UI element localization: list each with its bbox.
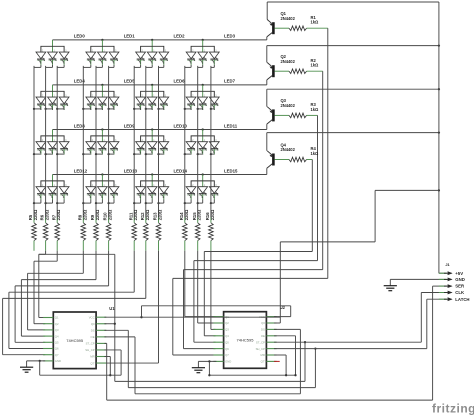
svg-text:OE: OE — [91, 335, 95, 339]
transistor Q3 2N4402 (PNP) — [267, 107, 274, 124]
LED LED3 (RGB common anode) — [186, 40, 219, 65]
LED LED13 (RGB common anode) — [86, 175, 119, 200]
svg-text:MR: MR — [90, 355, 94, 359]
wire column 7 vertical — [133, 66, 135, 218]
svg-text:1kΩ: 1kΩ — [311, 107, 320, 112]
wire U1 pin7 — [104, 356, 110, 358]
wire Q2 emitter to rail — [266, 46, 268, 63]
wire column 8 vertical — [145, 66, 147, 218]
LED LED14 (RGB common anode) — [136, 175, 169, 200]
wire +5V emitter rails — [267, 1, 439, 3]
svg-text:LED11: LED11 — [224, 123, 238, 128]
LED LED0 (RGB common anode) — [36, 40, 69, 65]
junction col11 row3 — [197, 202, 199, 204]
wire R1 to U2 vertical — [327, 28, 329, 278]
wire LED12 cathode 2 drop — [63, 200, 65, 204]
wire LED13 cathode 2 drop — [113, 200, 115, 204]
wire row 0 bus — [53, 39, 267, 41]
wire vcc mid horizontal — [280, 241, 375, 243]
svg-text:220Ω: 220Ω — [158, 209, 163, 220]
svg-text:1kΩ: 1kΩ — [311, 63, 320, 68]
svg-text:OE: OE — [261, 334, 265, 338]
wire column 9 vertical — [158, 66, 160, 218]
wire data bottom bus — [135, 393, 300, 395]
resistor R14 220 ohm — [184, 218, 186, 223]
LED LED9 (RGB common anode) — [86, 130, 119, 155]
svg-text:CLK: CLK — [455, 290, 465, 295]
junction col12 row1 — [210, 108, 212, 110]
junction col2 row1 — [44, 108, 46, 110]
svg-text:2N4402: 2N4402 — [281, 16, 296, 21]
svg-text:VCC: VCC — [89, 315, 95, 319]
svg-text:220Ω: 220Ω — [145, 209, 150, 220]
wire row 2 bus — [53, 129, 267, 131]
svg-text:Q0: Q0 — [261, 321, 265, 325]
svg-text:1kΩ: 1kΩ — [311, 20, 320, 25]
junction col8 row1 — [145, 108, 147, 110]
svg-text:Q7': Q7' — [90, 361, 95, 365]
svg-text:SER: SER — [455, 284, 465, 289]
wire LED3 cathode 2 drop — [213, 65, 215, 68]
wire U2 GND — [198, 360, 216, 362]
wire LED0 cathode 2 drop — [63, 65, 65, 68]
IC U1 74HC595 — [53, 312, 96, 369]
svg-text:LED5: LED5 — [124, 79, 136, 84]
wire U1 VCC net — [104, 316, 141, 318]
junction row2 pkg2 — [151, 128, 153, 130]
wire LED7 cathode 0 drop — [190, 109, 192, 110]
wire LED13 cathode 1 drop — [101, 200, 103, 204]
junction col3 row1 — [56, 108, 58, 110]
ground near U1 — [26, 361, 28, 367]
wire LED5 cathode 2 drop — [113, 109, 115, 110]
wire R2 to U2 vertical — [322, 71, 324, 269]
wire Q3 emitter to rail — [266, 89, 268, 107]
wire R4 to U2 vertical — [311, 160, 313, 252]
junction col4 row1 — [82, 108, 84, 110]
LED LED12 (RGB common anode) — [36, 175, 69, 200]
resistor R12 220 ohm — [145, 218, 147, 223]
junction rail — [438, 44, 440, 46]
wire LED8 cathode 0 drop — [40, 153, 42, 155]
resistor R8 220 ohm — [82, 218, 84, 223]
wire column 2 vertical — [45, 66, 47, 218]
ground near U2 — [197, 361, 199, 367]
svg-text:+5V: +5V — [455, 271, 463, 276]
svg-text:Q4: Q4 — [55, 334, 59, 338]
wires resistor columns to U1 left pins — [45, 251, 47, 255]
wire Q1 emitter to rail — [266, 2, 268, 20]
junction col8 row2 — [145, 153, 147, 155]
svg-text:GND: GND — [455, 277, 465, 282]
wire to U2 VCC pin1 — [290, 306, 292, 317]
wire LED12 cathode 0 drop — [40, 200, 42, 204]
junction col11 row2 — [197, 153, 199, 155]
resistor R3 1k — [275, 114, 290, 116]
wire LED15 cathode 1 drop — [202, 200, 204, 204]
svg-text:LED7: LED7 — [224, 79, 236, 84]
svg-text:220Ω: 220Ω — [133, 209, 138, 220]
svg-text:LATCH: LATCH — [455, 297, 469, 302]
svg-text:2N4402: 2N4402 — [281, 103, 296, 108]
svg-text:LED2: LED2 — [174, 34, 186, 39]
resistor R1 1k — [275, 27, 290, 29]
wire LED3 cathode 0 drop — [190, 65, 192, 68]
wire U1 pin6 — [104, 349, 121, 351]
wire LED4 cathode 1 drop — [52, 109, 54, 110]
wire SER bottom bus — [107, 399, 433, 401]
ground near J1 — [389, 279, 391, 285]
resistor R4 1k — [275, 159, 290, 161]
wire clk riser — [304, 342, 306, 381]
wire +5V right rail — [438, 2, 440, 273]
svg-text:Q2: Q2 — [55, 322, 59, 326]
svg-text:GND: GND — [225, 360, 231, 364]
wire LED4 cathode 2 drop — [63, 109, 65, 110]
resistor R2 1k — [275, 70, 290, 72]
wire column 12 vertical — [210, 66, 212, 218]
wire column 10 vertical — [184, 66, 186, 218]
resistor R10 220 ohm — [108, 218, 110, 223]
junction row3 pkg3 — [202, 173, 204, 175]
wire LED0 cathode 0 drop — [40, 65, 42, 68]
wire LED13 cathode 0 drop — [90, 200, 92, 204]
wire unrouted Q7' (red) — [274, 360, 280, 362]
junction col5 row1 — [95, 108, 97, 110]
svg-text:220Ω: 220Ω — [108, 209, 113, 220]
junction col12 row2 — [210, 153, 212, 155]
wire +5V drop to U2 pin2 — [279, 242, 281, 323]
LED LED5 (RGB common anode) — [86, 85, 119, 110]
svg-text:SH_CP: SH_CP — [85, 348, 94, 352]
svg-text:2N4402: 2N4402 — [281, 147, 296, 152]
junction row0 pkg3 — [202, 39, 204, 41]
junction row3 pkg1 — [101, 173, 103, 175]
svg-text:ST_CP: ST_CP — [256, 340, 265, 344]
wire LED14 cathode 2 drop — [163, 200, 165, 204]
svg-text:Q3: Q3 — [225, 328, 229, 332]
svg-text:LED12: LED12 — [74, 168, 88, 173]
wire LED8 cathode 2 drop — [63, 153, 65, 155]
LED LED15 (RGB common anode) — [186, 175, 219, 200]
junction col1 row1 — [33, 108, 35, 110]
wire LED1 cathode 1 drop — [101, 65, 103, 68]
LED LED8 (RGB common anode) — [36, 130, 69, 155]
wire column 11 vertical — [197, 66, 199, 218]
wire GND bottom bus — [40, 374, 121, 376]
junction col7 row3 — [133, 202, 135, 204]
svg-text:LED14: LED14 — [174, 168, 188, 173]
junction row1 pkg1 — [101, 84, 103, 86]
wire LED6 cathode 0 drop — [140, 109, 142, 110]
junction U1 vcc — [140, 316, 142, 318]
junction col6 row3 — [107, 202, 109, 204]
wire U1 pin1 long to x280 — [142, 316, 281, 318]
svg-text:74HC595: 74HC595 — [66, 338, 84, 343]
svg-text:220Ω: 220Ω — [184, 209, 189, 220]
wire LED1 cathode 0 drop — [90, 65, 92, 68]
svg-text:Q7': Q7' — [261, 360, 266, 364]
svg-text:Q6: Q6 — [225, 347, 229, 351]
junction col2 row3 — [44, 202, 46, 204]
svg-text:Q4: Q4 — [225, 334, 229, 338]
svg-text:LED10: LED10 — [174, 123, 188, 128]
svg-text:220Ω: 220Ω — [33, 209, 38, 220]
wire +5V to J1 — [439, 272, 447, 274]
wire LED15 cathode 2 drop — [213, 200, 215, 204]
wire LED10 cathode 1 drop — [151, 153, 153, 155]
wires columns 10-12 to U2 — [184, 251, 186, 317]
wire R3 to U2 vertical — [317, 115, 319, 260]
junction rail — [438, 88, 440, 90]
wire U1 GND — [27, 360, 46, 362]
junction U1 gnd — [39, 360, 41, 362]
resistor R13 220 ohm — [158, 218, 160, 223]
svg-text:Q6: Q6 — [55, 347, 59, 351]
junction col1 row2 — [33, 153, 35, 155]
svg-text:DS: DS — [261, 328, 265, 332]
junction col10 row3 — [184, 202, 186, 204]
svg-text:220Ω: 220Ω — [56, 209, 61, 220]
junction row1 pkg2 — [151, 84, 153, 86]
wire CLK bottom bus — [115, 380, 305, 382]
LED LED11 (RGB common anode) — [186, 130, 219, 155]
svg-text:SH_CP: SH_CP — [256, 347, 265, 351]
junction row3 pkg2 — [151, 173, 153, 175]
junction col3 row3 — [56, 202, 58, 204]
svg-text:ST_CP: ST_CP — [86, 342, 95, 346]
wire LED11 cathode 2 drop — [213, 153, 215, 155]
wire LED6 cathode 1 drop — [151, 109, 153, 110]
svg-text:Q7: Q7 — [55, 353, 59, 357]
wire LED3 cathode 1 drop — [202, 65, 204, 68]
wire SER to J1 — [432, 286, 434, 400]
wire LED1 cathode 2 drop — [113, 65, 115, 68]
wire LED11 cathode 0 drop — [190, 153, 192, 155]
svg-text:MR: MR — [261, 353, 265, 357]
LED LED1 (RGB common anode) — [86, 40, 119, 65]
junction col12 row3 — [210, 202, 212, 204]
wire LED7 cathode 2 drop — [213, 109, 215, 110]
transistor Q4 2N4402 (PNP) — [267, 151, 274, 168]
junction vcc tap — [438, 189, 440, 191]
svg-text:220Ω: 220Ω — [210, 209, 215, 220]
junction col10 row1 — [184, 108, 186, 110]
junction col3 row2 — [56, 153, 58, 155]
svg-text:Q5: Q5 — [55, 341, 59, 345]
wire vcc riser — [374, 190, 376, 242]
svg-text:LED6: LED6 — [174, 79, 186, 84]
junction row1 pkg3 — [202, 84, 204, 86]
junction col6 row2 — [107, 153, 109, 155]
junction col5 row2 — [95, 153, 97, 155]
junction col7 row1 — [133, 108, 135, 110]
svg-text:GND: GND — [55, 359, 61, 363]
svg-text:Q3: Q3 — [55, 328, 59, 332]
wire CLK trunk vertical — [114, 254, 116, 381]
wire column 5 vertical — [95, 66, 97, 218]
svg-text:Q5: Q5 — [225, 340, 229, 344]
junction col5 row3 — [95, 202, 97, 204]
wire LED14 cathode 1 drop — [151, 200, 153, 204]
wire LED5 cathode 0 drop — [90, 109, 92, 110]
wire LED9 cathode 1 drop — [101, 153, 103, 155]
svg-text:LED15: LED15 — [224, 168, 238, 173]
wire U1 pin4 data to U2 — [104, 336, 135, 338]
svg-text:Q1: Q1 — [55, 316, 59, 320]
LED LED7 (RGB common anode) — [186, 85, 219, 110]
wire Q1 collector to row bus — [266, 37, 268, 40]
junction col4 row2 — [82, 153, 84, 155]
svg-text:220Ω: 220Ω — [82, 209, 87, 220]
wire LATCH bottom bus — [128, 387, 315, 389]
resistor R16 220 ohm — [210, 218, 212, 223]
wire LED9 cathode 2 drop — [113, 153, 115, 155]
svg-text:2N4402: 2N4402 — [281, 59, 296, 64]
wire LED9 cathode 0 drop — [90, 153, 92, 155]
wire LED8 cathode 1 drop — [52, 153, 54, 155]
wire column 4 vertical — [82, 66, 84, 218]
junction col9 row3 — [157, 202, 159, 204]
junction row0 pkg2 — [151, 39, 153, 41]
wire Q2 collector to row bus — [266, 80, 268, 85]
wire Q4 collector to row bus — [266, 168, 268, 174]
svg-text:1kΩ: 1kΩ — [311, 151, 320, 156]
wire LED15 cathode 0 drop — [190, 200, 192, 204]
junction col9 row1 — [157, 108, 159, 110]
junction rail — [438, 131, 440, 133]
svg-text:Q0: Q0 — [91, 322, 95, 326]
wire U1 pin5 SER — [104, 342, 106, 344]
svg-text:LED13: LED13 — [124, 168, 138, 173]
wire LED2 cathode 2 drop — [163, 65, 165, 68]
LED LED4 (RGB common anode) — [36, 85, 69, 110]
wire LED4 cathode 0 drop — [40, 109, 42, 110]
junction col4 row3 — [82, 202, 84, 204]
LED LED2 (RGB common anode) — [136, 40, 169, 65]
junction col7 row2 — [133, 153, 135, 155]
svg-text:220Ω: 220Ω — [45, 209, 50, 220]
transistor Q2 2N4402 (PNP) — [267, 63, 274, 80]
wire vcc to rail — [375, 189, 439, 191]
wire LED5 cathode 1 drop — [101, 109, 103, 110]
junction U2 gnd — [208, 360, 210, 362]
svg-text:LED9: LED9 — [124, 123, 136, 128]
junction col8 row3 — [145, 202, 147, 204]
resistor R9 220 ohm — [95, 218, 97, 223]
svg-text:U1: U1 — [109, 306, 115, 311]
wire LED14 cathode 0 drop — [140, 200, 142, 204]
wire row 3 bus — [53, 174, 267, 176]
wire U1 pin2 CLK — [104, 323, 114, 325]
svg-text:220Ω: 220Ω — [197, 209, 202, 220]
wire LED10 cathode 0 drop — [140, 153, 142, 155]
IC U2 74HC595 — [224, 312, 267, 369]
junction row2 pkg3 — [202, 128, 204, 130]
wire column 6 vertical — [108, 66, 110, 218]
wire column 3 vertical — [56, 66, 58, 218]
svg-text:Q2: Q2 — [225, 321, 229, 325]
wire LED2 cathode 1 drop — [151, 65, 153, 68]
resistor R11 220 ohm — [133, 218, 135, 223]
wire U1 pin3 LATCH — [104, 329, 128, 331]
wire GND to J1 — [390, 278, 446, 280]
wire CLK to J1 — [274, 341, 421, 343]
wire LED11 cathode 1 drop — [202, 153, 204, 155]
wire row 1 bus — [53, 84, 267, 86]
junction col9 row2 — [157, 153, 159, 155]
wire LED7 cathode 1 drop — [202, 109, 204, 110]
wire LED10 cathode 2 drop — [163, 153, 165, 155]
svg-text:LED1: LED1 — [124, 34, 136, 39]
transistor Q1 2N4402 (PNP) — [267, 20, 274, 37]
wire gnd to U2 OE — [285, 355, 287, 375]
junction CLK trunk — [114, 323, 116, 325]
junction col11 row1 — [197, 108, 199, 110]
junction col6 row1 — [107, 108, 109, 110]
junction col10 row2 — [184, 153, 186, 155]
wire LED2 cathode 0 drop — [140, 65, 142, 68]
wire LATCH to J1 — [274, 348, 427, 350]
resistor R7 220 ohm — [56, 218, 58, 223]
svg-text:fritzing: fritzing — [432, 402, 474, 416]
svg-text:220Ω: 220Ω — [95, 209, 100, 220]
LED LED6 (RGB common anode) — [136, 85, 169, 110]
wire latch riser — [314, 349, 316, 388]
svg-text:74HC595: 74HC595 — [237, 338, 255, 343]
svg-text:Q7: Q7 — [225, 353, 229, 357]
junction row0 pkg1 — [101, 39, 103, 41]
wire LED0 cathode 1 drop — [52, 65, 54, 68]
resistor R5 220 ohm — [33, 218, 35, 223]
wire column 1 vertical — [33, 66, 35, 218]
wire Q3 collector to row bus — [266, 124, 268, 129]
svg-text:LED0: LED0 — [74, 34, 86, 39]
wire Q4 emitter to rail — [266, 133, 268, 151]
wire U2 OE to gnd bus — [274, 335, 296, 337]
junction row2 pkg1 — [101, 128, 103, 130]
svg-text:LED3: LED3 — [224, 34, 236, 39]
wire column 9 to U1 pin Q7 — [158, 251, 160, 363]
wire LED12 cathode 1 drop — [52, 200, 54, 204]
wire LED6 cathode 2 drop — [163, 109, 165, 110]
resistor R15 220 ohm — [197, 218, 199, 223]
LED LED10 (RGB common anode) — [136, 130, 169, 155]
resistor R6 220 ohm — [45, 218, 47, 223]
junction col2 row2 — [44, 153, 46, 155]
wire data riser to U2 DS — [299, 329, 301, 393]
junction col1 row3 — [33, 202, 35, 204]
svg-text:DS: DS — [91, 329, 95, 333]
